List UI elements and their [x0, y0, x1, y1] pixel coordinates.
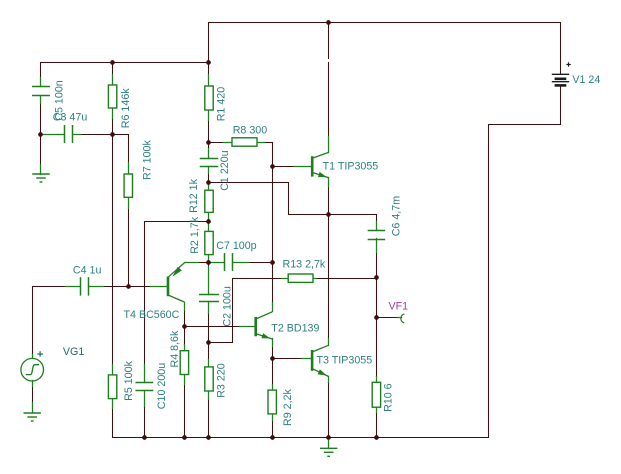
- svg-text:R5 100k: R5 100k: [123, 360, 135, 400]
- svg-text:R7 100k: R7 100k: [141, 140, 153, 180]
- svg-text:R2 1,7k: R2 1,7k: [189, 216, 201, 253]
- svg-text:R12 1k: R12 1k: [188, 178, 200, 213]
- svg-text:C5 100n: C5 100n: [54, 80, 66, 120]
- svg-text:C6 4,7m: C6 4,7m: [391, 196, 403, 236]
- svg-text:C2 100u: C2 100u: [222, 286, 234, 326]
- svg-text:T3 TIP3055: T3 TIP3055: [317, 355, 373, 367]
- svg-text:VG1: VG1: [63, 346, 84, 358]
- svg-text:R1 420: R1 420: [216, 87, 228, 122]
- svg-text:R13 2,7k: R13 2,7k: [283, 258, 326, 270]
- svg-text:R8 300: R8 300: [233, 124, 268, 136]
- svg-text:C10 200u: C10 200u: [156, 363, 168, 409]
- svg-text:R4 8,6k: R4 8,6k: [169, 330, 181, 367]
- svg-text:T1 TIP3055: T1 TIP3055: [323, 160, 379, 172]
- svg-text:R9 2,2k: R9 2,2k: [282, 389, 294, 426]
- svg-text:R10 6: R10 6: [383, 383, 395, 412]
- svg-text:R3 220: R3 220: [216, 363, 228, 398]
- svg-text:R6 146k: R6 146k: [120, 88, 132, 128]
- svg-text:VF1: VF1: [389, 300, 409, 312]
- svg-text:C7 100p: C7 100p: [216, 240, 256, 252]
- svg-text:V1 24: V1 24: [572, 74, 600, 86]
- svg-text:T2 BD139: T2 BD139: [271, 323, 319, 335]
- svg-text:C1 220u: C1 220u: [219, 150, 231, 190]
- svg-text:C4 1u: C4 1u: [73, 264, 102, 276]
- svg-text:T4 BC560C: T4 BC560C: [124, 309, 180, 321]
